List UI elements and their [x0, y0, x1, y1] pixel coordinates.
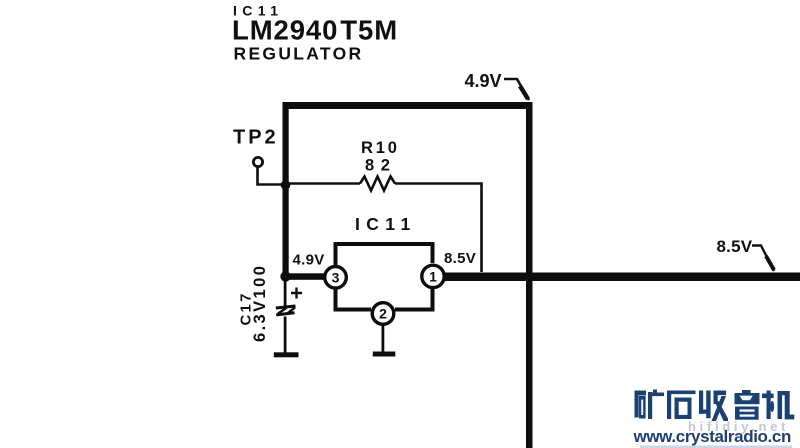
svg-text:REGULATOR: REGULATOR	[234, 44, 364, 64]
wire: 8.5V horizontal rail	[444, 273, 800, 282]
svg-text:6.3V100: 6.3V100	[251, 264, 269, 342]
wire: 4.9V top horizontal rail	[283, 102, 532, 109]
wire: 4.9V vertical rail (down to bottom edge)	[526, 102, 533, 448]
wire pin 3 to left rail (thick)	[284, 273, 325, 280]
svg-text:LM2940T5M: LM2940T5M	[232, 15, 398, 46]
pin 1 circle	[422, 265, 444, 287]
glyph SHOU	[699, 391, 703, 414]
capacitor C17 top plate	[276, 306, 296, 308]
svg-text:TP2: TP2	[233, 126, 279, 148]
wire pin 2 down	[382, 325, 385, 352]
test point TP2 circle	[253, 157, 262, 166]
capacitor C17 stem lower	[284, 317, 287, 354]
resistor R10 zigzag	[360, 177, 395, 191]
junction dot at C17 tap	[280, 271, 290, 281]
regulator IC11 body outline	[336, 244, 433, 266]
junction dot (TP2 / R10 / rail)	[281, 180, 291, 190]
svg-text:4.9V: 4.9V	[293, 252, 325, 269]
svg-text:3: 3	[332, 269, 340, 285]
capacitor C17 hatch strokes	[278, 307, 295, 313]
svg-text:4.9V: 4.9V	[465, 71, 502, 91]
capacitor C17 stem upper	[284, 280, 287, 307]
watermark: crystalradio logo group	[635, 390, 795, 422]
ground (C17)	[274, 352, 299, 357]
glyph KUANG	[635, 391, 639, 418]
svg-text:R10: R10	[361, 139, 400, 157]
glyph JI	[767, 391, 771, 420]
svg-text:82: 82	[365, 157, 397, 175]
wire R10 right segment and drop to 8.5V rail	[395, 184, 482, 273]
pin 3 circle	[325, 267, 347, 289]
capacitor C17 plus sign	[291, 288, 302, 299]
svg-text:8.5V: 8.5V	[444, 250, 476, 267]
leader line 8.5V to rail	[752, 246, 774, 272]
wire TP2 to left rail	[258, 167, 285, 185]
ground (pin 2)	[373, 352, 396, 357]
watermark: bottom smear	[640, 446, 792, 448]
wire R10 left segment	[288, 182, 360, 185]
svg-text:2: 2	[379, 306, 387, 322]
svg-text:www.crystalradio.cn: www.crystalradio.cn	[633, 427, 791, 446]
svg-text:8.5V: 8.5V	[717, 237, 753, 256]
capacitor C17 bottom plate	[276, 313, 294, 315]
pin 2 circle	[372, 303, 394, 325]
svg-text:1: 1	[429, 268, 437, 284]
glyph SHI	[667, 391, 696, 395]
wire: left vertical rail	[283, 102, 289, 280]
svg-text:IC11: IC11	[355, 214, 417, 234]
leader line from 4.9V label to rail	[504, 79, 529, 100]
glyph YIN	[742, 390, 751, 393]
